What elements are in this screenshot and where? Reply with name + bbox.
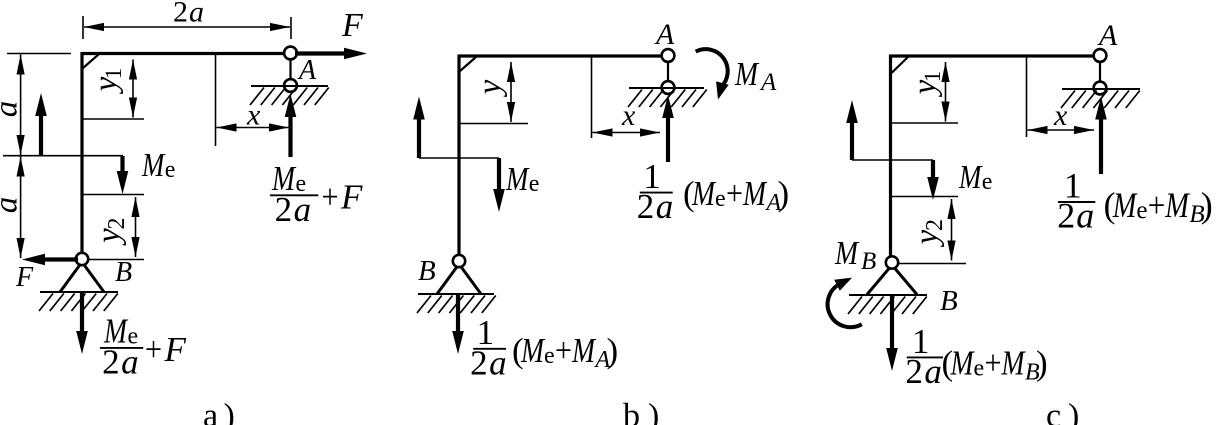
moment MA curved arrow: [696, 49, 729, 99]
svg-text:B: B: [115, 257, 132, 288]
svg-text:+F: +F: [322, 177, 364, 216]
svg-text:(Me+MA): (Me+MA): [683, 174, 789, 216]
svg-text:y1: y1: [88, 68, 126, 95]
tick above y2 (c): [890, 196, 958, 198]
y1 dimension (c): [941, 62, 949, 122]
pin at B (b): [453, 255, 465, 267]
x dim extension line (b): [591, 57, 593, 138]
svg-text:x: x: [246, 98, 261, 131]
y1 dimension: [129, 60, 137, 118]
svg-text:y1: y1: [907, 71, 945, 98]
svg-text:2a: 2a: [173, 0, 204, 29]
svg-text:x: x: [1053, 99, 1068, 132]
pin at A bottom (b): [662, 81, 675, 94]
svg-text:Me: Me: [505, 161, 539, 198]
svg-text:MA: MA: [734, 56, 777, 96]
svg-text:A: A: [1097, 19, 1118, 52]
pin at B: [76, 253, 88, 265]
tick under y1: [82, 118, 144, 120]
left dim top tick: [7, 53, 71, 55]
svg-text:2a: 2a: [102, 343, 139, 382]
left dim a (upper): [17, 55, 25, 156]
couple Me line / mid tick: [3, 155, 123, 157]
svg-text:A: A: [654, 18, 675, 51]
horizontal member: [82, 52, 291, 55]
svg-text:x: x: [621, 99, 636, 132]
couple Me downward arrow (b): [493, 158, 505, 212]
reaction arrow at A: [285, 94, 297, 157]
fraction 1/2a (c bottom): [907, 356, 943, 358]
moment MB curved arrow: [828, 278, 862, 328]
pin at A top (b): [662, 49, 675, 62]
ground line at A: [251, 85, 328, 87]
tick at B level (c): [898, 263, 966, 265]
hatching at B: [39, 294, 118, 312]
corner chamfer: [83, 55, 99, 69]
svg-text:2a: 2a: [905, 352, 942, 391]
tick under y1 (c): [890, 122, 958, 124]
svg-text:(Me+MA): (Me+MA): [512, 331, 618, 373]
couple Me upward arrow (c): [846, 100, 858, 160]
reaction arrow at B: [76, 292, 88, 354]
fraction 1/2a (b right): [640, 192, 673, 194]
corner chamfer (c): [892, 57, 909, 73]
svg-text:y2: y2: [91, 218, 130, 246]
fraction 1/2a (c right): [1058, 201, 1095, 203]
2a dim left extension line: [82, 16, 84, 39]
x dimension (b): [593, 128, 661, 136]
svg-text:2a: 2a: [470, 343, 507, 382]
support B triangle: [60, 262, 104, 292]
link between pins at A (c): [1099, 56, 1101, 89]
ground line at A (b): [629, 87, 704, 89]
ground line at A (c): [1062, 88, 1140, 90]
svg-text:(Me+MB): (Me+MB): [1104, 185, 1213, 228]
svg-text:+F: +F: [145, 330, 187, 369]
support B triangle (c): [867, 265, 917, 295]
ground line at B: [40, 291, 118, 293]
tick above y2: [82, 194, 144, 196]
y dimension (b): [507, 62, 515, 122]
svg-text:(Me+MB): (Me+MB): [942, 343, 1048, 385]
2a dim right extension line: [290, 17, 292, 39]
vertical member (c): [889, 55, 892, 263]
reaction arrow at A (c): [1095, 97, 1107, 175]
link between pins at A (b): [667, 56, 669, 88]
corner chamfer (b): [460, 57, 476, 71]
hatching at A: [250, 88, 329, 106]
svg-text:a: a: [0, 101, 25, 118]
fraction 1/2a (b bottom): [473, 348, 506, 350]
svg-text:B: B: [940, 285, 958, 317]
svg-text:F: F: [341, 7, 364, 44]
force F arrow at B: [22, 254, 78, 266]
svg-text:F: F: [15, 262, 34, 293]
vertical member: [80, 52, 83, 259]
svg-text:a: a: [0, 197, 25, 214]
pin at A top (c): [1094, 49, 1107, 62]
couple Me line (c): [852, 159, 933, 161]
svg-text:Me: Me: [141, 147, 175, 184]
tick under y (b): [459, 123, 528, 125]
svg-text:2a: 2a: [275, 190, 312, 229]
reaction arrow at B (b): [452, 294, 464, 354]
2a dimension line: [84, 23, 290, 31]
force F arrow: [295, 48, 367, 60]
x dim extension line: [215, 55, 217, 146]
x dimension (c): [1028, 126, 1095, 134]
couple Me line (b): [419, 157, 499, 159]
svg-text:2a: 2a: [1057, 196, 1094, 236]
y2 dimension: [131, 197, 139, 257]
couple Me downward force arrow: [117, 156, 129, 194]
hatching at B (c): [848, 297, 927, 315]
left dim a (lower): [17, 157, 25, 259]
link between pins at A: [289, 53, 291, 85]
support B triangle (b): [437, 264, 481, 294]
svg-text:2a: 2a: [637, 187, 674, 226]
svg-text:MB: MB: [834, 235, 876, 275]
hatching at A (b): [628, 90, 707, 108]
horizontal member (c): [891, 54, 1101, 57]
pin at A (bottom): [284, 79, 297, 92]
hatching at B (b): [417, 296, 496, 314]
label Me/2a + F at B: [100, 347, 143, 349]
label Me/2a + F at A: [270, 194, 318, 196]
pin at B (c): [886, 256, 898, 268]
couple Me downward arrow (c): [927, 160, 939, 200]
ground line at B (c): [849, 294, 927, 296]
tick at B level: [89, 259, 144, 261]
pin at A bottom (c): [1094, 82, 1107, 95]
couple Me upward arrow (b): [413, 97, 425, 159]
reaction arrow at B (c): [886, 295, 898, 371]
vertical member (b): [457, 55, 460, 262]
couple Me upward force arrow: [35, 93, 47, 155]
svg-text:c): c): [1046, 398, 1079, 425]
svg-text:b): b): [623, 398, 659, 425]
svg-text:B: B: [418, 255, 436, 287]
ground line at B (b): [418, 293, 494, 295]
svg-text:A: A: [297, 55, 317, 86]
svg-text:y: y: [472, 79, 508, 97]
reaction arrow at A (b): [662, 95, 674, 162]
pin at A (top): [284, 47, 297, 60]
svg-text:a): a): [203, 398, 235, 425]
x dimension: [217, 123, 290, 131]
y2 dimension (c): [947, 199, 955, 261]
horizontal member (b): [459, 54, 668, 57]
svg-text:y2: y2: [909, 219, 948, 247]
x dim extension line (c): [1026, 57, 1028, 137]
svg-text:Me: Me: [958, 159, 992, 196]
hatching at A (c): [1061, 91, 1140, 109]
